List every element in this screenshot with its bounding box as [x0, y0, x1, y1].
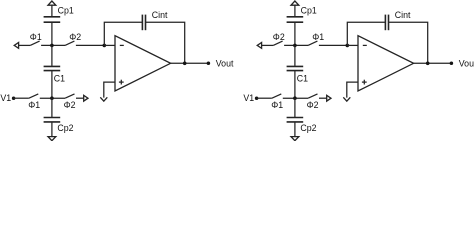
wire op-amp output to Vout [left] — [171, 62, 209, 64]
label Cp2 [right] — [300, 123, 316, 133]
ground (down-arrow) below Cp2 [right] — [291, 137, 299, 141]
label Φ1 (bottom-left) [left] — [28, 100, 40, 110]
wire V1 to switch Φ1 [right] — [257, 97, 272, 99]
ground (down-arrow) at + input [right] — [343, 97, 350, 101]
svg-text:Cp2: Cp2 — [300, 123, 316, 133]
svg-text:Φ1: Φ1 — [271, 100, 283, 110]
node D (output junction) [right] — [426, 62, 430, 66]
terminal Vout [left] — [207, 62, 211, 66]
wire switch to node B [right] — [319, 44, 347, 46]
label C1 [left] — [54, 73, 65, 83]
label Φ1 (top-left) [left] — [30, 32, 42, 42]
svg-text:Cint: Cint — [152, 10, 168, 20]
switch Φ1 (bottom-left) [right] — [272, 94, 281, 98]
label Cint [right] — [395, 10, 411, 20]
switch Φ1 (bottom-left) [left] — [29, 94, 38, 98]
input terminal (left arrow) top row [right] — [257, 43, 261, 49]
wire switch to node C to switch [left] — [40, 97, 65, 99]
wire op-amp + input to ground [right] — [347, 82, 358, 98]
svg-text:Φ2: Φ2 — [307, 100, 319, 110]
wire terminal to switch Φ1 [left] — [19, 44, 31, 46]
op-amp [left] — [115, 36, 171, 91]
terminal Vout [right] — [450, 62, 454, 66]
node A (junction) [right] — [293, 44, 297, 48]
wire terminal to switch Φ2 [right] — [262, 44, 274, 46]
svg-text:V1: V1 — [243, 93, 254, 103]
output terminal (right arrow) bottom row [right] — [327, 95, 331, 101]
input terminal (left arrow) top row [left] — [14, 43, 18, 49]
svg-text:Cp1: Cp1 — [301, 6, 317, 16]
node B (inverting input node) [right] — [346, 44, 350, 48]
svg-text:Cint: Cint — [395, 10, 411, 20]
label Φ2 (top-right) [left] — [69, 32, 81, 42]
wire switch to output arrow [right] — [319, 97, 327, 99]
label Φ1 (top-right) [right] — [312, 32, 324, 42]
wire V1 to switch Φ1 [left] — [14, 97, 29, 99]
svg-text:Cp2: Cp2 — [57, 123, 73, 133]
label Cp1 [left] — [58, 6, 74, 16]
wire node C to Cp2 [right] — [294, 98, 296, 117]
wire node B up to Cint [right] — [347, 22, 385, 45]
terminal V1 [left] — [12, 96, 16, 100]
node C (junction) [left] — [50, 96, 54, 100]
capacitor Cp1 [left] — [44, 17, 61, 22]
label V1 [left] — [0, 93, 11, 103]
svg-text:Cp1: Cp1 — [58, 6, 74, 16]
node C (junction) [right] — [293, 96, 297, 100]
node A (junction) [left] — [50, 44, 54, 48]
switch Φ1 (top-right) [right] — [308, 41, 317, 45]
wire node B to op-amp [left] — [104, 44, 115, 46]
label Φ2 (top-left) [right] — [273, 32, 285, 42]
label V1 [right] — [243, 93, 254, 103]
op-amp [right] — [358, 36, 414, 91]
label Φ1 (bottom-left) [right] — [271, 100, 283, 110]
capacitor Cp2 [left] — [44, 118, 61, 122]
output terminal (right arrow) bottom row [left] — [84, 95, 88, 101]
node D (output junction) [left] — [183, 62, 187, 66]
ground (up-arrow) above Cp1 [right] — [291, 1, 299, 5]
wire node A to C1 [left] — [51, 45, 53, 66]
capacitor Cp2 [right] — [287, 118, 304, 122]
switch Φ2 (top-right) [left] — [65, 41, 74, 45]
svg-text:C1: C1 — [297, 73, 308, 83]
svg-text:Φ2: Φ2 — [69, 32, 81, 42]
ground (up-arrow) above Cp1 [left] — [48, 1, 56, 5]
label Φ2 (bottom-right) [left] — [64, 100, 76, 110]
capacitor C1 [right] — [287, 66, 304, 70]
label Φ2 (bottom-right) [right] — [307, 100, 319, 110]
terminal V1 [right] — [255, 96, 259, 100]
label Vout [right] — [459, 58, 474, 68]
switch Φ1 (top-left) [left] — [30, 41, 39, 45]
svg-text:Φ2: Φ2 — [64, 100, 76, 110]
svg-text:V1: V1 — [0, 93, 11, 103]
wire Cp1 to node A [right] — [294, 22, 296, 45]
capacitor Cint [right] — [385, 15, 388, 31]
wire Cp2 to ground [right] — [294, 122, 296, 137]
wire C1 to node C [right] — [294, 71, 296, 99]
ground (down-arrow) below Cp2 [left] — [48, 137, 56, 141]
wire arrow to Cp1 [right] — [294, 5, 296, 16]
svg-text:Vout: Vout — [459, 58, 474, 68]
label Cint [left] — [152, 10, 168, 20]
wire switch to node B [left] — [76, 44, 104, 46]
node B (inverting input node) [left] — [103, 44, 107, 48]
switch Φ2 (top-left) [right] — [273, 41, 282, 45]
switch Φ2 (bottom-right) [left] — [65, 94, 74, 98]
wire C1 to node C [left] — [51, 71, 53, 99]
label C1 [right] — [297, 73, 308, 83]
wire switch to node A to switch [right] — [284, 44, 308, 46]
label Cp1 [right] — [301, 6, 317, 16]
wire node B to op-amp [right] — [347, 44, 358, 46]
wire Cp2 to ground [left] — [51, 122, 53, 137]
wire switch to node C to switch [right] — [283, 97, 308, 99]
wire switch to node A to switch [left] — [41, 44, 65, 46]
capacitor Cint [left] — [142, 15, 145, 31]
capacitor C1 [left] — [44, 66, 61, 70]
svg-text:Φ1: Φ1 — [30, 32, 42, 42]
svg-text:Vout: Vout — [216, 58, 234, 68]
capacitor Cp1 [right] — [287, 17, 304, 22]
wire Cint down to node D [left] — [146, 22, 185, 63]
wire switch to output arrow [left] — [76, 97, 84, 99]
label Cp2 [left] — [57, 123, 73, 133]
ground (down-arrow) at + input [left] — [100, 97, 107, 101]
svg-text:Φ1: Φ1 — [28, 100, 40, 110]
wire op-amp output to Vout [right] — [414, 62, 452, 64]
label Vout [left] — [216, 58, 234, 68]
wire arrow to Cp1 [left] — [51, 5, 53, 16]
wire Cint down to node D [right] — [389, 22, 428, 63]
switch Φ2 (bottom-right) [right] — [308, 94, 317, 98]
svg-text:C1: C1 — [54, 73, 65, 83]
wire node C to Cp2 [left] — [51, 98, 53, 117]
wire Cp1 to node A [left] — [51, 22, 53, 45]
wire op-amp + input to ground [left] — [104, 82, 115, 98]
svg-text:Φ1: Φ1 — [312, 32, 324, 42]
wire node A to C1 [right] — [294, 45, 296, 66]
wire node B up to Cint [left] — [104, 22, 142, 45]
svg-text:Φ2: Φ2 — [273, 32, 285, 42]
